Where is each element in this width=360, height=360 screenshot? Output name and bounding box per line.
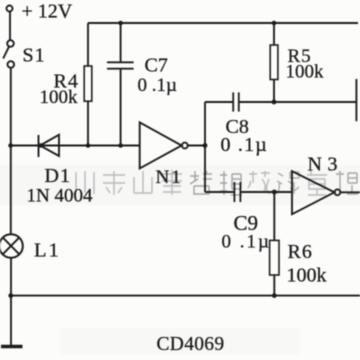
wire D1 horizontal [11,145,140,147]
svg-text:N3: N3 [308,154,343,176]
watermark row (faint gray pseudo CJK characters) [73,170,358,195]
svg-text:100k: 100k [40,87,79,108]
wire bottom rail [11,295,360,297]
wire terminal to S1 [9,12,11,40]
svg-text:0 .1µ: 0 .1µ [221,134,269,156]
wire C9 horizontal from link [205,191,234,193]
capacitor C9 [234,182,240,202]
resistor R5 [273,23,275,45]
svg-text:N1: N1 [156,167,183,188]
op: inverter N3 [292,171,334,214]
+12V terminal [7,6,13,12]
wire left rail down to lamp [10,146,12,235]
node R6 bottom [272,293,277,298]
node C7 top [118,21,123,26]
svg-text:CD4069: CD4069 [157,334,225,355]
svg-text:0 .1µ: 0 .1µ [222,232,271,253]
svg-text:D1: D1 [45,165,71,187]
svg-text:1N 4004: 1N 4004 [27,186,93,207]
node N1 output [203,143,208,148]
node R5 top [272,21,277,26]
svg-text:100k: 100k [286,62,325,83]
svg-text:R6: R6 [288,241,313,263]
svg-text:0 .1µ: 0 .1µ [138,75,178,96]
node C9/R6/N3 [272,190,277,195]
resistor R4 [87,23,89,66]
wire vertical link C8-C9 [204,102,206,192]
wire lamp to ground rail [10,258,12,346]
capacitor C8 [205,101,233,103]
node C8/R5 [272,100,277,105]
diode D1 [38,135,40,157]
node R4 bottom [86,143,91,148]
op: inverter N2 input edge (cut off) [355,79,357,121]
ground [1,345,23,349]
op: inverter N1 [140,122,182,168]
lamp L1 [0,234,23,258]
svg-text:C7: C7 [145,55,168,77]
resistor R6 [273,192,275,240]
wire top rail [88,22,358,24]
scan smudge bands [0,165,360,205]
node: bottom rail junction [8,293,13,298]
node C7 bottom [118,143,123,148]
svg-text:S1: S1 [23,45,46,67]
capacitor C7 [120,23,122,62]
switch S1 [7,40,14,47]
svg-text:+ 12V: + 12V [22,1,73,23]
svg-text:100k: 100k [287,265,327,287]
wire S1 to D1 rail [10,68,12,146]
node: left rail / D1 wire junction [8,143,13,148]
svg-text:L1: L1 [34,240,61,262]
